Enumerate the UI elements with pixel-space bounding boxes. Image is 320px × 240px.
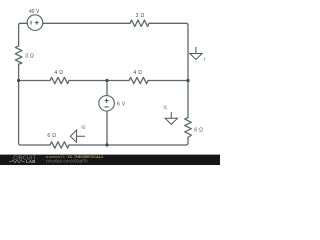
wire middle row R4 to right junction (148, 80, 188, 82)
wire top from V1 right to R2 (43, 22, 130, 24)
current arrow I2 (bottom, pointing left) (70, 130, 85, 142)
wire right vertical below R6 to bottom corner (186, 138, 188, 146)
svg-text:3 Ω: 3 Ω (25, 53, 34, 59)
current arrow I (top right, pointing down) (190, 47, 202, 60)
V2 polarity plus (top) (105, 99, 109, 103)
wire top-left from V1 to left corner down to R1 (19, 23, 28, 46)
svg-text:3 Ω: 3 Ω (136, 13, 145, 19)
wire V2 bottom to bottom junction (106, 111, 108, 145)
svg-text:6 V: 6 V (117, 101, 126, 107)
voltage source V2 6V circle (99, 96, 115, 112)
svg-text:4 Ω: 4 Ω (133, 70, 142, 76)
resistor R6 6ohm right vertical zigzag (185, 118, 192, 138)
wire top-right corner down to middle junction (149, 23, 188, 80)
wire middle row R3 to center junction (69, 80, 107, 82)
junction node left-middle (17, 79, 20, 82)
wire middle row left junction to R3 (19, 80, 50, 82)
svg-text:circuitlab.com/c56qh7b: circuitlab.com/c56qh7b (46, 158, 89, 163)
svg-text:I2: I2 (81, 124, 85, 129)
V2 polarity minus (bottom) (104, 106, 108, 108)
junction node right-middle (186, 79, 189, 82)
wire bottom row R5 to right bottom corner (69, 144, 186, 146)
svg-text:I: I (204, 57, 205, 62)
junction node center-middle (105, 79, 108, 82)
V1 polarity plus (right) (35, 21, 39, 25)
wire center junction down to V2 top (106, 81, 108, 96)
CircuitLab logo resistor glyph (9, 160, 25, 163)
svg-text:LAB: LAB (26, 159, 36, 164)
V1 polarity minus (vertical bar, left) (30, 21, 32, 25)
junction node center-bottom (105, 143, 108, 146)
svg-text:6 Ω: 6 Ω (194, 128, 203, 134)
resistor R4 4ohm middle-right zigzag (129, 77, 148, 83)
current arrow I1 (right middle, pointing down) (165, 112, 177, 124)
wire left vertical below R1 to bottom-left corner (19, 64, 50, 145)
resistor R5 6ohm bottom zigzag (50, 142, 69, 148)
watermark bar (0, 155, 220, 165)
voltage source V1 40V circle (27, 15, 43, 31)
svg-text:4 Ω: 4 Ω (54, 70, 63, 76)
resistor R1 3ohm left vertical zigzag (15, 46, 22, 64)
svg-text:40 V: 40 V (29, 9, 40, 15)
wire middle row center junction to R4 (107, 80, 129, 82)
resistor R3 4ohm middle-left zigzag (50, 77, 69, 83)
resistor R2 3ohm top zigzag (130, 20, 149, 26)
wire right vertical middle junction to R6 (187, 81, 189, 118)
svg-text:6 Ω: 6 Ω (47, 133, 56, 139)
svg-text:I1: I1 (163, 105, 167, 110)
